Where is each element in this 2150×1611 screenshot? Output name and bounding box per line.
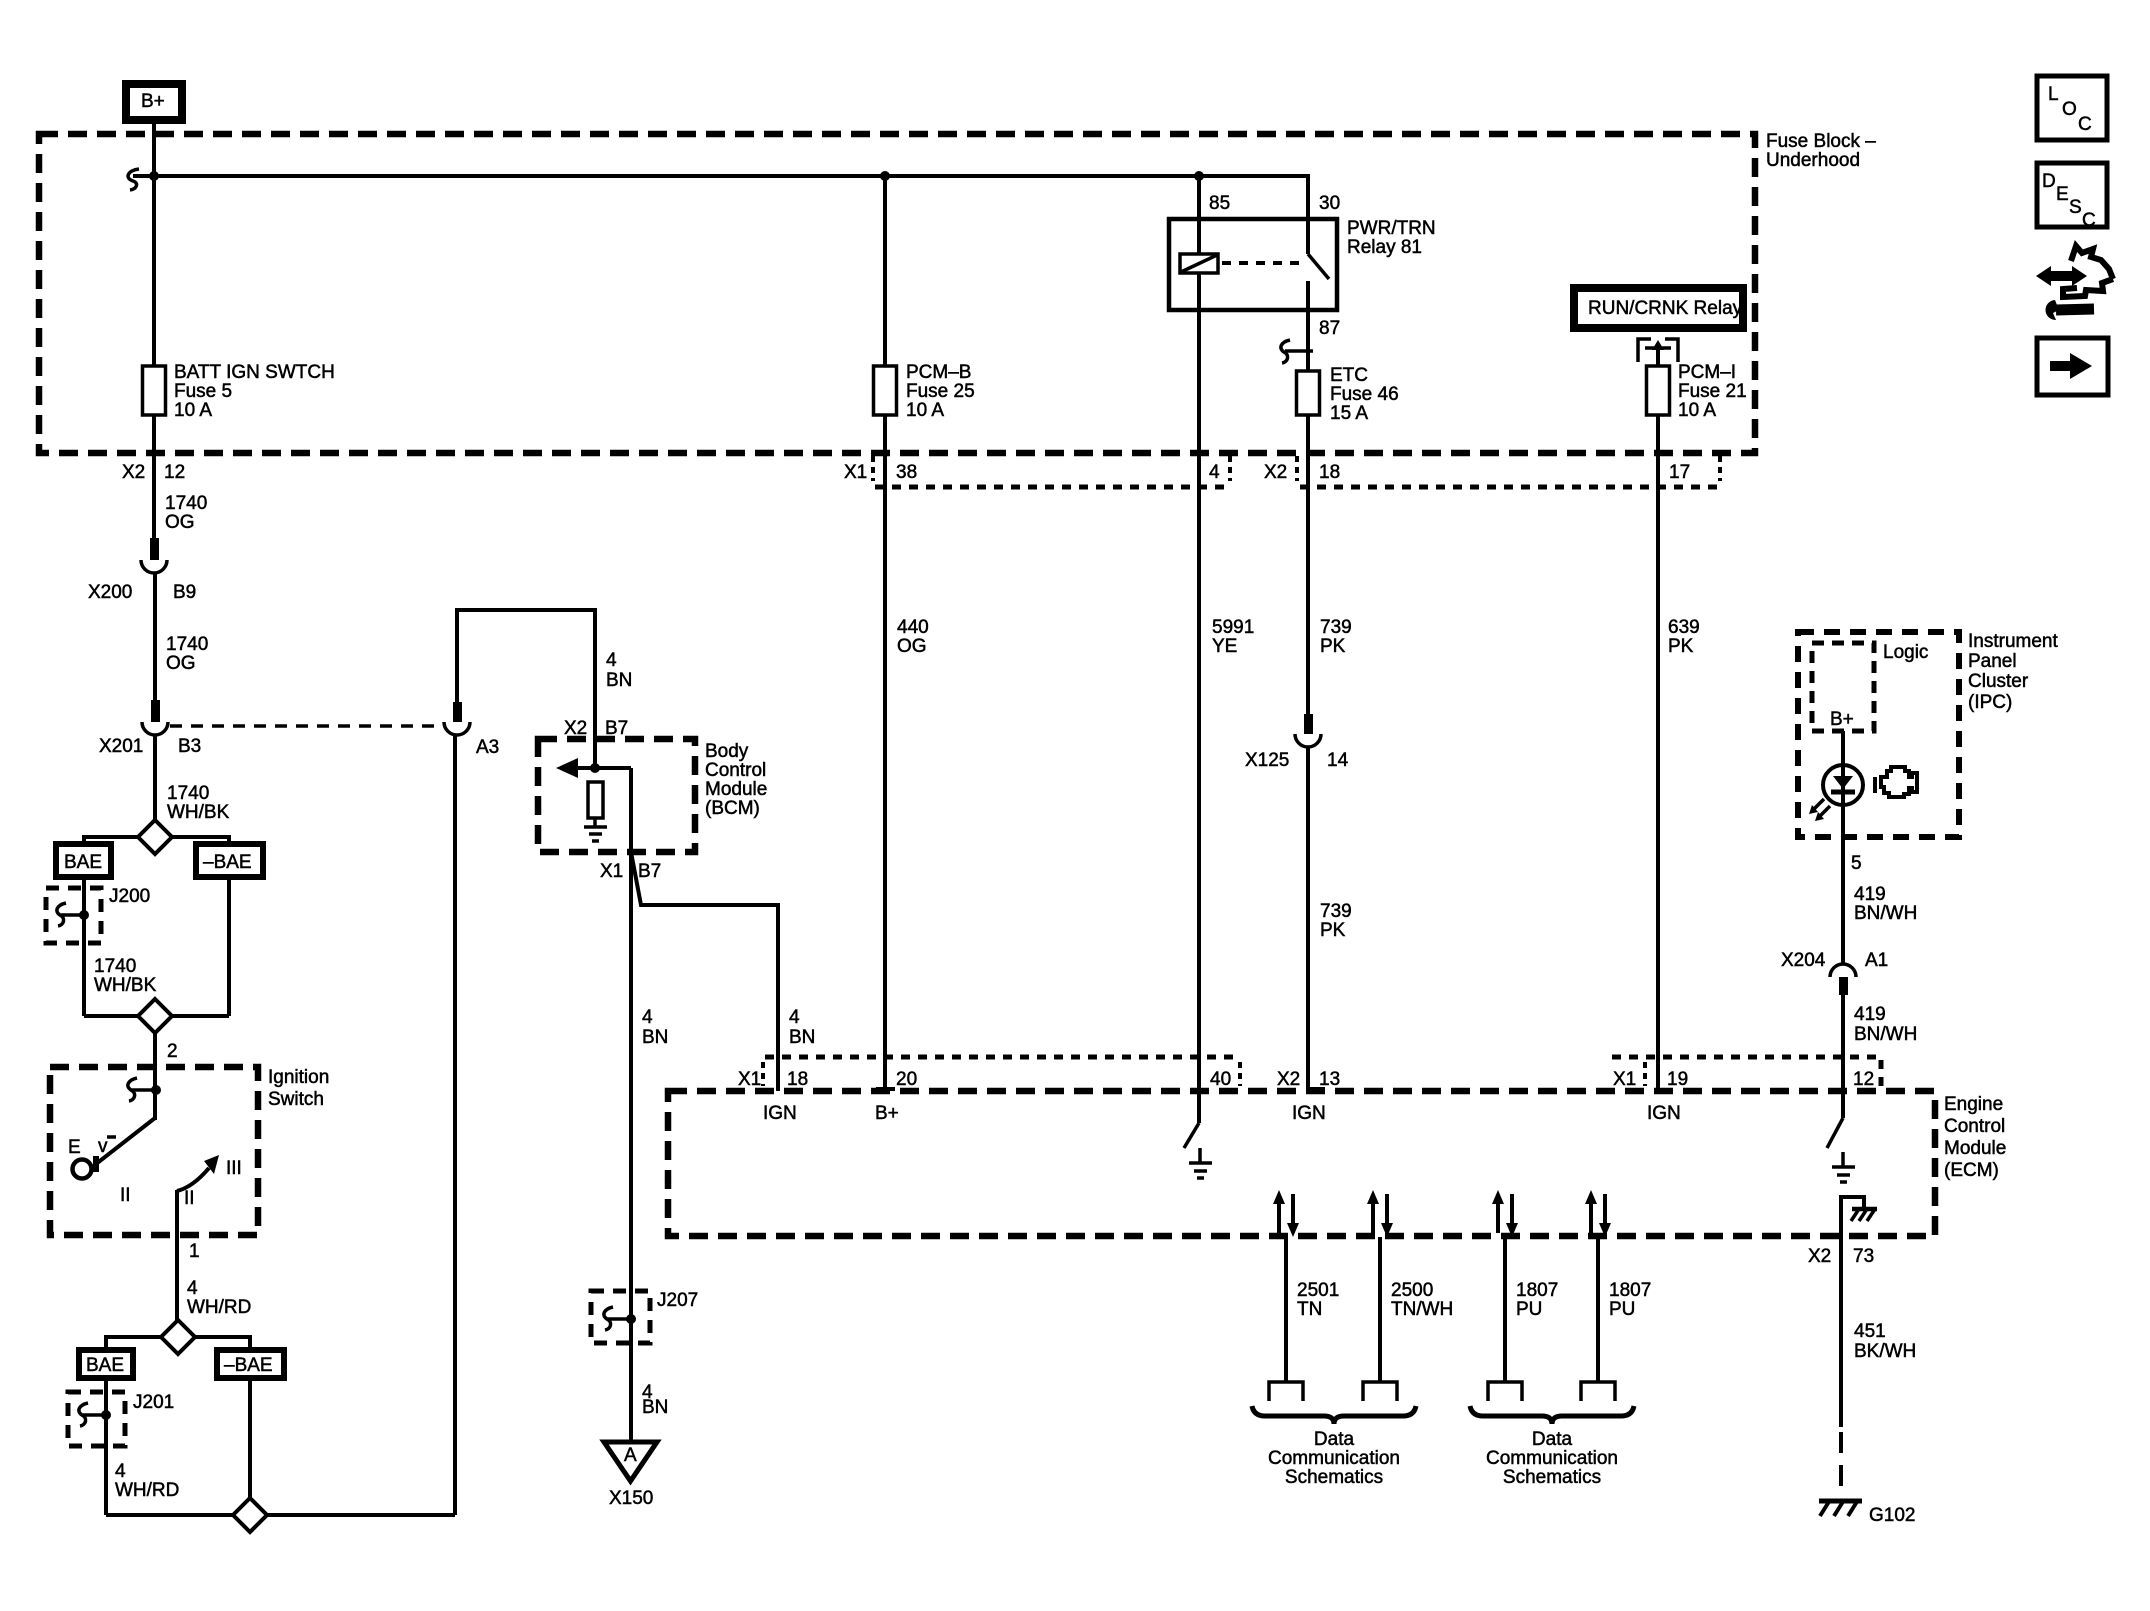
splice J200 dashed box: [46, 888, 101, 943]
junction node at relay 85 feed: [1194, 171, 1204, 181]
connector X204: [1830, 964, 1856, 995]
ignition switch wiper blade: [96, 1118, 155, 1164]
svg-text:Module: Module: [705, 779, 767, 800]
splice J201 dashed box: [68, 1392, 125, 1446]
wire BCM to ECM IGN branch: [631, 852, 778, 1091]
wire label 4 WH/RD (lower): [115, 1461, 179, 1501]
svg-text:BN: BN: [789, 1027, 815, 1048]
connector tick X2: [1295, 456, 1299, 481]
wire label 1740 WH/BK (J200): [94, 956, 157, 996]
svg-text:40: 40: [1210, 1069, 1231, 1090]
svg-text:WH/BK: WH/BK: [94, 975, 157, 996]
svg-text:2: 2: [167, 1041, 178, 1062]
Body Control Module label: [705, 741, 767, 819]
wiring pigtail icon: [2036, 246, 2113, 320]
svg-text:2500: 2500: [1391, 1280, 1433, 1301]
Engine Control Module label: [1944, 1094, 2006, 1181]
svg-text:Panel: Panel: [1968, 651, 2017, 672]
svg-text:–BAE: –BAE: [203, 852, 252, 873]
svg-text:A1: A1: [1865, 950, 1888, 971]
svg-text:BN: BN: [642, 1397, 668, 1418]
fuse F21 label: [1678, 362, 1747, 421]
svg-text:Module: Module: [1944, 1138, 2006, 1159]
svg-text:Underhood: Underhood: [1766, 150, 1860, 171]
connector tick after 4: [1228, 456, 1232, 481]
wire BAE to diamond: [84, 1014, 139, 1018]
fuse block output connector dotted row (left): [875, 485, 1230, 490]
svg-text:X2: X2: [1277, 1069, 1300, 1090]
wire label 2500 TN/WH: [1391, 1280, 1453, 1320]
ignition switch splice hook: [128, 1078, 161, 1101]
fuse F5 label: [174, 362, 335, 421]
svg-text:RUN/CRNK Relay: RUN/CRNK Relay: [1588, 298, 1743, 319]
splice diamond output to A3 riser: [233, 1498, 267, 1532]
ECM pin labels X2 13: [1277, 1069, 1340, 1090]
wire label 739 PK (lower): [1320, 901, 1352, 941]
svg-text:B7: B7: [638, 861, 661, 882]
splice hook at ETC feed: [1281, 340, 1313, 363]
BCM internal arrow line: [556, 758, 631, 778]
IPC engine icon: [1875, 767, 1917, 797]
svg-text:BN: BN: [606, 670, 632, 691]
svg-text:440: 440: [897, 617, 929, 638]
svg-text:10 A: 10 A: [906, 400, 944, 421]
wire BCM output X1 B7: [629, 768, 633, 852]
Ignition Switch dashed box: [50, 1067, 258, 1235]
wire B+ down to Fuse 5 and to X200: [152, 124, 156, 538]
svg-text:4: 4: [789, 1007, 800, 1028]
LOC reference box: [2037, 76, 2107, 140]
svg-text:18: 18: [787, 1069, 808, 1090]
relay socket bracket: [1638, 339, 1678, 362]
wire label 419 BN/WH (upper): [1854, 884, 1917, 924]
Instrument Panel Cluster dashed box: [1798, 632, 1959, 837]
svg-text:C: C: [2082, 210, 2096, 231]
label Data Communication Schematics (left): [1268, 1429, 1400, 1488]
wire BCM down to J207 and X150: [629, 852, 633, 1442]
relay switch blade: [1306, 219, 1310, 254]
Body Control Module dashed box: [538, 739, 695, 852]
svg-text:Relay 81: Relay 81: [1347, 237, 1422, 258]
svg-text:X200: X200: [88, 582, 132, 603]
relay coil: [1180, 254, 1218, 273]
svg-text:BATT IGN SWTCH: BATT IGN SWTCH: [174, 362, 335, 383]
pin label X1 38: [844, 462, 917, 483]
svg-text:Engine: Engine: [1944, 1094, 2003, 1115]
svg-text:X150: X150: [609, 1488, 653, 1509]
svg-text:WH/BK: WH/BK: [167, 802, 230, 823]
connector label X201 B3: [99, 736, 201, 757]
data wire 1807 PU (right): [1581, 1190, 1615, 1401]
data wire 2500 TN/WH: [1363, 1190, 1397, 1401]
ignition switch blade end tick: [93, 1156, 99, 1172]
svg-text:X1: X1: [738, 1069, 761, 1090]
B+ power terminal box: [126, 84, 182, 120]
svg-text:X201: X201: [99, 736, 143, 757]
wire BAE down through J200: [82, 877, 86, 1016]
svg-text:(BCM): (BCM): [705, 798, 760, 819]
svg-text:G102: G102: [1869, 1505, 1915, 1526]
svg-text:14: 14: [1327, 750, 1349, 771]
pin label X2 18: [1264, 462, 1340, 483]
ECM internal switch at pin 12: [1827, 1091, 1843, 1148]
svg-text:10 A: 10 A: [174, 400, 212, 421]
ECM pin labels X2 73: [1808, 1246, 1874, 1267]
wire A3 riser up and over to BCM X2 B7: [457, 610, 595, 768]
svg-text:Fuse 21: Fuse 21: [1678, 381, 1747, 402]
svg-text:Control: Control: [1944, 1116, 2005, 1137]
svg-text:12: 12: [1853, 1069, 1874, 1090]
svg-text:1807: 1807: [1516, 1280, 1558, 1301]
svg-text:B3: B3: [178, 736, 201, 757]
svg-text:18: 18: [1319, 462, 1340, 483]
svg-text:Schematics: Schematics: [1503, 1467, 1601, 1488]
svg-text:PWR/TRN: PWR/TRN: [1347, 218, 1436, 239]
svg-text:B9: B9: [173, 582, 196, 603]
wire label 2501 TN: [1297, 1280, 1339, 1320]
svg-text:BAE: BAE: [86, 1355, 124, 1376]
splice diamond at BAE branch (lower): [161, 1320, 195, 1354]
wire label 639 PK: [1668, 617, 1700, 657]
svg-text:1740: 1740: [165, 493, 207, 514]
svg-text:15 A: 15 A: [1330, 403, 1368, 424]
wire diamond to A3 riser: [266, 1513, 455, 1517]
svg-text:B+: B+: [1830, 709, 1854, 730]
svg-text:J207: J207: [657, 1290, 698, 1311]
relay pin 87 wire to ETC fuse: [1306, 281, 1310, 714]
svg-text:10 A: 10 A: [1678, 400, 1716, 421]
terminal box -BAE: [196, 844, 263, 877]
svg-text:Switch: Switch: [268, 1089, 324, 1110]
svg-text:5: 5: [1851, 853, 1862, 874]
svg-text:S: S: [2069, 197, 2082, 218]
svg-text:C: C: [2078, 114, 2092, 135]
svg-text:Cluster: Cluster: [1968, 671, 2029, 692]
svg-text:X2: X2: [1264, 462, 1287, 483]
svg-text:(IPC): (IPC): [1968, 692, 2012, 713]
svg-text:Instrument: Instrument: [1968, 631, 2058, 652]
relay switch blade diagonal: [1308, 254, 1329, 279]
svg-text:Schematics: Schematics: [1285, 1467, 1383, 1488]
wire diamond to BAE (lower): [106, 1337, 162, 1351]
svg-text:85: 85: [1209, 193, 1230, 214]
data wire 2501 TN: [1269, 1190, 1303, 1401]
IPC Logic dashed box: [1812, 643, 1874, 731]
svg-text:L: L: [2048, 84, 2059, 105]
wire label 4 BN at BCM feed: [606, 650, 632, 691]
svg-text:Fuse 46: Fuse 46: [1330, 384, 1399, 405]
svg-text:Fuse 25: Fuse 25: [906, 381, 975, 402]
svg-text:A3: A3: [476, 737, 499, 758]
svg-text:451: 451: [1854, 1321, 1886, 1342]
wire label 4 BN (to X150): [642, 1382, 668, 1418]
svg-text:1740: 1740: [94, 956, 136, 977]
wire -BAE down to diamond: [248, 1378, 252, 1499]
wire X201 to diamond: [153, 735, 157, 821]
svg-text:–BAE: –BAE: [224, 1355, 273, 1376]
svg-text:Communication: Communication: [1268, 1448, 1400, 1469]
svg-text:38: 38: [896, 462, 917, 483]
svg-text:O: O: [2062, 99, 2077, 120]
svg-text:OG: OG: [166, 653, 196, 674]
svg-text:1740: 1740: [167, 783, 209, 804]
wire label 4 BN (right branch): [789, 1007, 815, 1048]
svg-text:Logic: Logic: [1883, 642, 1928, 663]
BCM internal resistor: [588, 782, 603, 827]
svg-text:739: 739: [1320, 617, 1352, 638]
pin label X1 B7 (BCM): [600, 861, 661, 882]
svg-text:II: II: [184, 1188, 195, 1209]
svg-text:19: 19: [1667, 1069, 1688, 1090]
svg-text:BK/WH: BK/WH: [1854, 1341, 1916, 1362]
connector tick X1 (ECM row right): [1643, 1062, 1647, 1086]
svg-text:1807: 1807: [1609, 1280, 1651, 1301]
pin label X2 12: [122, 462, 185, 483]
svg-text:WH/RD: WH/RD: [187, 1297, 251, 1318]
forward reference arrow box: [2037, 338, 2108, 395]
brace data communication (right): [1470, 1406, 1634, 1424]
svg-text:J201: J201: [133, 1392, 174, 1413]
splice J200 hook: [57, 903, 89, 926]
svg-text:X1: X1: [600, 861, 623, 882]
svg-text:J200: J200: [109, 886, 150, 907]
svg-text:20: 20: [896, 1069, 917, 1090]
splice J207 hook: [604, 1307, 636, 1330]
svg-text:X2: X2: [1808, 1246, 1831, 1267]
ignition switch internal feed wire: [153, 1090, 157, 1120]
svg-text:30: 30: [1319, 193, 1340, 214]
bus wire from B+ feed across fuse block to relay 30: [133, 176, 1308, 219]
svg-text:4: 4: [187, 1278, 198, 1299]
svg-text:B+: B+: [875, 1103, 899, 1124]
wire PCM-B fuse feed down to ECM pin 20: [883, 176, 887, 1089]
wire label 1740 OG (upper): [165, 493, 207, 533]
wire diamond to -BAE (lower): [194, 1337, 250, 1351]
svg-text:TN/WH: TN/WH: [1391, 1299, 1453, 1320]
RUN/CRNK Relay box: [1574, 288, 1743, 328]
connector label X200 B9: [88, 582, 196, 603]
ignition switch OFF terminal circle: [73, 1160, 92, 1179]
PWR/TRN relay 85 wire down to ECM pin 40: [1197, 176, 1201, 1091]
Fuse Block - Underhood dashed box: [39, 134, 1755, 453]
svg-text:IGN: IGN: [1292, 1103, 1326, 1124]
svg-text:X1: X1: [1613, 1069, 1636, 1090]
splice J201 hook: [79, 1403, 111, 1426]
svg-text:A: A: [624, 1445, 637, 1466]
connector X201: [142, 700, 168, 735]
pin label X2 B7 (BCM): [564, 718, 628, 739]
wire label 451 BK/WH: [1854, 1321, 1916, 1362]
svg-text:4: 4: [606, 650, 617, 671]
svg-text:PU: PU: [1609, 1299, 1635, 1320]
terminal box -BAE (lower): [217, 1350, 284, 1378]
svg-text:12: 12: [164, 462, 185, 483]
ECM pin 20 terminal cap: [876, 1087, 895, 1091]
ECM connector dotted row (right segment): [1612, 1057, 1881, 1086]
fuse F46 ETC: [1297, 371, 1320, 415]
wire label 1740 WH/BK (X201): [167, 783, 230, 823]
fuse F25 label: [906, 362, 975, 421]
terminal box BAE: [56, 844, 111, 877]
ECM pin labels X1 18: [738, 1069, 808, 1090]
splice diamond at BAE branch: [138, 820, 172, 854]
svg-text:BN: BN: [642, 1027, 668, 1048]
junction node at PCM-B fuse feed: [880, 171, 890, 181]
svg-text:E: E: [2056, 184, 2069, 205]
svg-text:639: 639: [1668, 617, 1700, 638]
DESC reference box: [2037, 163, 2107, 231]
svg-text:4: 4: [1209, 462, 1220, 483]
connector X125: [1295, 714, 1321, 747]
ignition switch arc arrowhead: [204, 1155, 219, 1174]
wire RUN/CRNK to PCM-I fuse and ECM pin 19: [1656, 348, 1660, 1091]
svg-text:739: 739: [1320, 901, 1352, 922]
svg-text:87: 87: [1319, 318, 1340, 339]
connector X200: [141, 538, 167, 573]
svg-text:BAE: BAE: [64, 852, 102, 873]
svg-text:Control: Control: [705, 760, 766, 781]
svg-text:BN/WH: BN/WH: [1854, 1024, 1917, 1045]
wire label 739 PK (upper): [1320, 617, 1352, 657]
svg-text:419: 419: [1854, 884, 1886, 905]
ECM pin 13 terminal cap: [1308, 1087, 1325, 1091]
terminal box BAE (lower): [79, 1350, 133, 1378]
ECM internal ground at pin 40: [1189, 1148, 1212, 1178]
wire label 1740 OG (lower): [166, 634, 208, 674]
PWR/TRN Relay label: [1347, 218, 1436, 258]
svg-text:PK: PK: [1320, 920, 1346, 941]
svg-text:73: 73: [1853, 1246, 1874, 1267]
wire BAE down through J201: [104, 1378, 108, 1515]
splice diamond to ignition switch: [138, 999, 172, 1033]
svg-text:v: v: [98, 1136, 108, 1157]
svg-text:Body: Body: [705, 741, 749, 762]
PWR/TRN Relay 81 box: [1169, 219, 1337, 310]
wire A3 riser vertical: [453, 735, 457, 1515]
Fuse Block - Underhood label: [1766, 131, 1876, 171]
svg-text:Communication: Communication: [1486, 1448, 1618, 1469]
wire label 1807 PU (left): [1516, 1280, 1558, 1320]
svg-text:YE: YE: [1212, 636, 1237, 657]
relay coil to switch dashed link: [1222, 261, 1302, 265]
fuse F25 PCM-B: [874, 366, 897, 415]
splice J207 dashed box: [591, 1291, 650, 1343]
svg-text:PK: PK: [1668, 636, 1694, 657]
svg-text:OG: OG: [165, 512, 195, 533]
Instrument Panel Cluster label: [1968, 631, 2058, 713]
wire label 440 OG: [897, 617, 929, 657]
dashed link X201 to A3: [170, 724, 442, 728]
ECM pin labels X1 19: [1613, 1069, 1688, 1090]
svg-text:III: III: [226, 1158, 242, 1179]
svg-text:X125: X125: [1245, 750, 1289, 771]
wire diamond to -BAE: [171, 837, 229, 845]
wire J201 BAE to diamond: [106, 1513, 234, 1517]
wire ignition output pin 1: [175, 1190, 179, 1320]
svg-text:IGN: IGN: [1647, 1103, 1681, 1124]
svg-text:D: D: [2042, 171, 2056, 192]
fuse block output connector dotted row (right): [1300, 485, 1720, 490]
wire label 419 BN/WH (lower): [1854, 1004, 1917, 1045]
splice hook at bus start: [128, 169, 139, 190]
svg-text:PCM–B: PCM–B: [906, 362, 971, 383]
fuse F21 PCM-I: [1647, 366, 1670, 415]
svg-text:X204: X204: [1781, 950, 1826, 971]
data wire 1807 PU (left): [1488, 1190, 1522, 1401]
svg-text:E: E: [68, 1137, 81, 1158]
svg-text:5991: 5991: [1212, 617, 1254, 638]
connector X150 triangle: [604, 1442, 657, 1481]
svg-text:PU: PU: [1516, 1299, 1542, 1320]
svg-text:4: 4: [115, 1461, 126, 1482]
connector tick after 17: [1718, 456, 1722, 481]
connector tick after 40: [1238, 1062, 1242, 1086]
ground G102: [1819, 1500, 1915, 1526]
svg-text:17: 17: [1669, 462, 1690, 483]
wire label 4 BN (left branch): [642, 1007, 668, 1048]
svg-text:13: 13: [1319, 1069, 1340, 1090]
label Data Communication Schematics (right): [1486, 1429, 1618, 1488]
svg-text:WH/RD: WH/RD: [115, 1480, 179, 1501]
wire -BAE to diamond: [171, 1014, 229, 1018]
svg-text:4: 4: [642, 1007, 653, 1028]
svg-text:Data: Data: [1532, 1429, 1573, 1450]
svg-text:1: 1: [189, 1241, 200, 1262]
svg-text:(ECM): (ECM): [1944, 1160, 1999, 1181]
svg-text:B+: B+: [141, 91, 165, 112]
connector tick X1 (ECM row left): [761, 1062, 765, 1086]
IPC warning LED: [1809, 765, 1863, 821]
ignition switch position arc to III: [177, 1168, 209, 1191]
wire label 5991 YE: [1212, 617, 1254, 657]
fuse F5 BATT IGN SWTCH: [143, 366, 166, 415]
junction node at B+/bus: [149, 171, 159, 181]
wire -BAE down: [227, 877, 231, 1016]
BCM internal ground: [584, 827, 607, 841]
wire label 1807 PU (right): [1609, 1280, 1651, 1320]
svg-text:X1: X1: [844, 462, 867, 483]
svg-text:ETC: ETC: [1330, 365, 1368, 386]
svg-text:Fuse Block –: Fuse Block –: [1766, 131, 1876, 152]
wire X204 to ECM pin 12: [1841, 995, 1845, 1091]
svg-text:X2: X2: [122, 462, 145, 483]
svg-text:Ignition: Ignition: [268, 1067, 329, 1088]
Ignition Switch label: [268, 1067, 329, 1110]
connector A3: [444, 702, 470, 735]
ignition switch tick mark: [107, 1135, 116, 1139]
svg-text:PCM–I: PCM–I: [1678, 362, 1736, 383]
wire diamond to ignition switch pin 2: [153, 1033, 157, 1090]
wire label 4 WH/RD (upper): [187, 1278, 251, 1318]
wire IPC B+ to pin 5: [1841, 731, 1845, 964]
connector tick X1 (fuse block row): [871, 456, 875, 481]
svg-text:2501: 2501: [1297, 1280, 1339, 1301]
svg-text:Fuse 5: Fuse 5: [174, 381, 232, 402]
wire diamond to BAE: [84, 837, 139, 845]
ECM connector dotted row (left segment): [765, 1055, 1240, 1060]
svg-text:1740: 1740: [166, 634, 208, 655]
svg-text:Data: Data: [1314, 1429, 1355, 1450]
fuse F46 label: [1330, 365, 1399, 424]
svg-text:419: 419: [1854, 1004, 1886, 1025]
wire X125 to ECM pin 13: [1306, 747, 1310, 1091]
svg-text:BN/WH: BN/WH: [1854, 903, 1917, 924]
svg-text:IGN: IGN: [763, 1103, 797, 1124]
svg-text:TN: TN: [1297, 1299, 1322, 1320]
connector label X125 14: [1245, 750, 1349, 771]
svg-text:PK: PK: [1320, 636, 1346, 657]
ECM internal switch at pin 40: [1184, 1091, 1199, 1148]
